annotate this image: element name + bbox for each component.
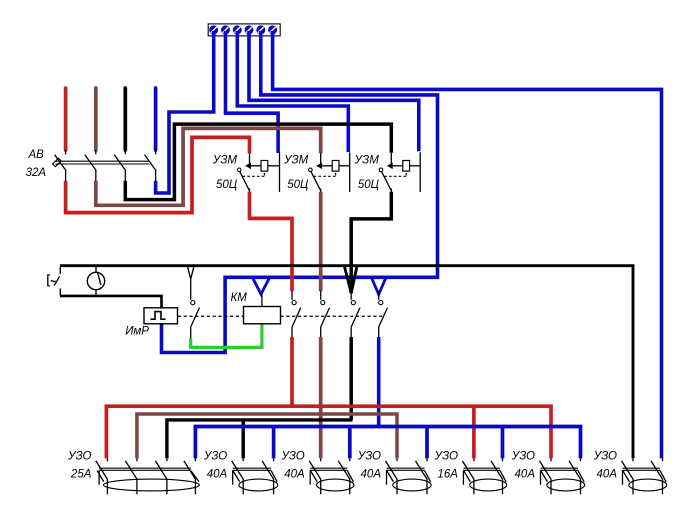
distribution bus black [167,420,353,459]
supply wire L2 brown [94,88,98,150]
AC source (~) [48,275,60,286]
svg-text:УЗМ: УЗМ [283,155,309,167]
svg-text:32А: 32А [26,167,47,179]
wire: terminal 5 to КМ coil circuit (blue) [162,31,438,353]
red drop to УЗО5 [472,406,476,458]
RCD УЗО3 40А [309,458,354,494]
svg-text:ИмР: ИмР [125,325,149,337]
svg-text:КМ: КМ [231,292,248,304]
КМ coil top stub [261,294,263,307]
contactor output pole4 blue [377,337,381,427]
dashed control link КМ to poles [281,315,385,317]
svg-text:УЗО: УЗО [280,451,304,463]
wire: terminal 2 to УЗМ1 neutral (blue) [226,31,279,153]
contactor coil КМ [244,307,281,324]
contactor output pole2 brown to УЗО3 [319,337,323,458]
svg-text:УЗО: УЗО [593,451,617,463]
circuit breaker АВ 32А (4-pole) [53,150,157,181]
contactor output pole1 red [290,337,294,406]
breaker output loop black [125,124,391,200]
svg-text:25А: 25А [70,469,92,481]
RCD УЗО7 40А [622,458,667,494]
breaker output loop brown [96,128,321,205]
svg-text:40А: 40А [361,469,382,481]
terminal 3 screw [233,25,242,34]
contactor КМ pole 3 contact [351,291,360,338]
tap V blue to contactor pole 4 [372,278,386,294]
ИмР relay contact [191,279,200,340]
voltage relay УЗМ2 50Ц [309,152,350,192]
svg-text:УЗМ: УЗМ [354,155,380,167]
terminal block X1 [208,24,280,36]
contactor КМ pole 2 contact [321,291,330,338]
RCD УЗО2 40А [232,458,278,494]
supply wire L3 black [123,88,127,150]
svg-text:УЗО: УЗО [67,451,91,463]
tap V black to contactor pole 3 [345,267,357,293]
distribution bus blue [195,427,580,459]
tap V to ИмР contact [188,267,194,280]
black drop to УЗО2 [241,420,244,459]
terminal 5 screw [256,25,265,34]
wire: terminal 6 to УЗО7 pole2 (blue) [273,31,662,458]
RCD УЗО1 25А [96,458,199,494]
source connection diagonals [59,267,61,296]
blue drop to УЗО4 [425,427,429,459]
svg-text:УЗО: УЗО [511,451,535,463]
terminal 6 screw [268,25,277,34]
svg-text:50Ц: 50Ц [287,179,309,191]
svg-text:40А: 40А [515,469,536,481]
tap V blue to КМ coil [253,278,269,294]
supply wire L1 red [64,88,68,150]
distribution bus red [106,406,551,458]
wire: terminal 3 to УЗМ2 neutral (blue) [237,31,348,152]
blue drop to УЗО2 [272,427,276,459]
terminal 1 screw [209,25,218,34]
wire green: ИмР contact to КМ coil [191,324,262,348]
blue drop to УЗО5 [501,427,505,459]
voltage relay УЗМ1 50Ц [237,152,279,192]
svg-text:УЗО: УЗО [434,451,458,463]
svg-text:50Ц: 50Ц [216,179,238,191]
voltage relay УЗМ3 50Ц [379,152,420,192]
svg-text:УЗО: УЗО [203,451,227,463]
svg-text:16А: 16А [437,469,458,481]
svg-text:УЗО: УЗО [357,451,381,463]
contactor КМ pole 4 contact [379,291,388,338]
УЗМ2 output brown through contactor pole 2 [319,192,323,291]
svg-text:40А: 40А [597,469,618,481]
terminal 2 screw [221,25,230,34]
blue drop to УЗО3 [348,427,352,459]
УЗМ3 output black to contactor pole 3 [351,192,391,293]
contactor output pole3 black [349,337,353,420]
supply wire N blue [154,88,158,150]
ИмР pulse relay box [144,308,178,324]
svg-text:УЗМ: УЗМ [212,155,238,167]
terminal 4 screw [245,25,254,34]
wire: terminal 4 to УЗМ3 neutral (blue) [249,31,419,151]
svg-text:40А: 40А [207,469,228,481]
RCD УЗО6 40А [540,458,585,494]
control line bottom to ИмР [60,296,162,308]
wire: terminal 1 to breaker N output loop (blue) [156,31,214,193]
indicator lamp circle [87,267,104,295]
distribution bus brown [137,414,397,458]
RCD УЗО5 16А [462,458,506,494]
contactor КМ pole 1 contact [292,291,301,338]
RCD УЗО4 40А [386,458,432,494]
УЗМ1 output red to contactor pole 1 [250,192,293,291]
breaker output loop red [66,137,250,212]
svg-text:50Ц: 50Ц [358,179,380,191]
dashed control link ИмР to КМ [178,315,244,317]
control bus top line black [60,266,633,459]
svg-text:40А: 40А [284,469,305,481]
svg-text:АВ: АВ [28,149,45,161]
